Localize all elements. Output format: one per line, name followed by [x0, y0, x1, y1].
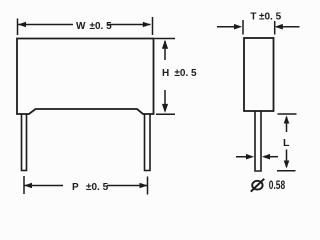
P dimension line left segment [24, 185, 63, 187]
lead (side view) [255, 111, 261, 171]
svg-text:H: H [162, 68, 169, 79]
W dimension extension line left [17, 19, 19, 36]
L dimension upper arrow [284, 116, 290, 133]
W dimension arrowhead left [18, 22, 26, 28]
L dimension bottom tick [277, 170, 296, 172]
P dimension line right segment [107, 185, 148, 187]
L dimension top tick [278, 113, 297, 115]
T dimension left arrow [217, 24, 242, 30]
T dimension extension line left [242, 20, 244, 35]
W dimension extension line right [152, 17, 154, 35]
P dimension arrowhead left [24, 183, 32, 189]
left lead (front view) [22, 114, 27, 171]
right lead (front view) [145, 114, 151, 171]
svg-text:T: T [250, 12, 256, 23]
H dimension upper arrow [162, 40, 168, 60]
capacitor body outline (side view) [244, 38, 274, 111]
H dimension top tick [155, 38, 176, 40]
P dimension arrowhead right [140, 183, 148, 189]
svg-text:0.58: 0.58 [269, 180, 286, 193]
T dimension right arrow [275, 24, 300, 30]
svg-text:L: L [283, 137, 290, 149]
svg-text:±0. 5: ±0. 5 [90, 21, 113, 32]
H dimension bottom tick [156, 113, 175, 115]
lead diameter left arrow [236, 154, 254, 160]
svg-text:±0. 5: ±0. 5 [259, 12, 282, 23]
W dimension line right segment [107, 24, 151, 26]
P dimension tick left [23, 176, 25, 194]
svg-text:±0. 5: ±0. 5 [174, 68, 197, 79]
L dimension lower arrow [284, 150, 290, 169]
capacitor body outline (front view) [17, 39, 154, 115]
P dimension tick right [147, 177, 149, 195]
lead diameter right arrow [262, 154, 278, 160]
W dimension line left segment [18, 24, 73, 26]
svg-text:P: P [72, 182, 79, 193]
svg-text:W: W [76, 21, 86, 32]
T dimension extension line right [274, 21, 276, 35]
diameter symbol [251, 179, 264, 192]
H dimension lower arrow [162, 90, 168, 113]
W dimension arrowhead right [143, 22, 151, 28]
svg-text:±0. 5: ±0. 5 [86, 182, 109, 193]
